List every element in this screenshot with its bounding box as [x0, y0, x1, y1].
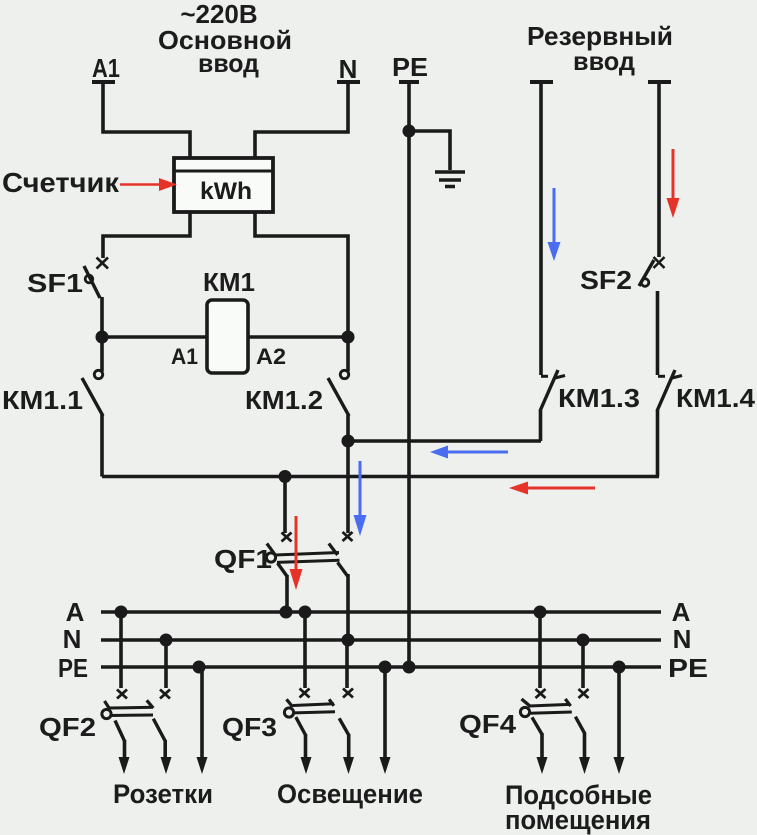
contact KM1.3: [540, 370, 565, 411]
wire QF4 tap A: [538, 612, 542, 688]
wire meter right output: [255, 212, 348, 372]
svg-text:А2: А2: [256, 344, 286, 369]
wire A1 to meter: [103, 82, 190, 158]
breaker QF3: [284, 689, 353, 736]
wire junction to KM1.1: [100, 337, 104, 372]
wire PE tap lighting: [383, 667, 387, 759]
svg-text:РЕ: РЕ: [58, 653, 88, 683]
node PE-utility: [613, 661, 626, 674]
wire SF2 output: [656, 291, 660, 375]
node PE-ground: [403, 125, 416, 138]
contact KM1.2: [328, 370, 349, 416]
arrow lighting PE: [380, 757, 391, 774]
red arrow reserve R down: [672, 149, 675, 201]
terminal reserve L: [530, 80, 553, 84]
breaker SF1: [84, 258, 108, 299]
breaker QF4: [520, 689, 588, 734]
wire QF4 out N: [583, 733, 587, 759]
wire SF1 to junction: [100, 297, 104, 337]
node SF1-coil: [96, 331, 109, 344]
wire N to meter: [255, 82, 348, 158]
svg-text:РЕ: РЕ: [392, 52, 428, 82]
svg-text:Счетчик: Счетчик: [2, 167, 120, 198]
node KM1.2-KM1.3: [342, 435, 355, 448]
node N-QF2: [160, 634, 173, 647]
node A-QF4: [534, 606, 547, 619]
wire lower bus: [102, 475, 659, 479]
wire QF3 tap N: [345, 640, 349, 688]
contact KM1.1: [82, 370, 103, 416]
arrow utility PE: [614, 757, 625, 774]
wire coil A2 to right riser: [248, 335, 348, 339]
svg-text:ввод: ввод: [198, 48, 259, 78]
svg-text:КМ1.4: КМ1.4: [676, 383, 756, 413]
svg-text:Розетки: Розетки: [113, 779, 213, 809]
svg-text:Освещение: Освещение: [277, 779, 423, 809]
terminal A1: [92, 80, 115, 84]
node coil A2: [342, 331, 355, 344]
load arrowheads: [119, 757, 625, 774]
wire QF1 right pole: [346, 441, 350, 533]
wire coil feed A1: [102, 335, 207, 339]
wire QF2 out A: [123, 740, 127, 759]
svg-text:РЕ: РЕ: [668, 653, 708, 683]
svg-text:QF1: QF1: [214, 544, 272, 574]
svg-text:QF3: QF3: [222, 712, 277, 742]
svg-text:N: N: [63, 624, 82, 654]
breaker QF1: [266, 532, 352, 577]
svg-text:А: А: [66, 597, 85, 627]
meter kWh box: [174, 158, 273, 212]
wire QF4 out A: [540, 733, 544, 759]
svg-text:ввод: ввод: [573, 46, 635, 76]
wire QF3 out N: [347, 734, 351, 759]
wire QF2 out N: [163, 740, 167, 759]
red arrow meter pointer: [120, 183, 162, 185]
bus N: [101, 638, 661, 642]
breaker QF2: [102, 690, 170, 742]
wire QF2 tap N: [164, 640, 168, 688]
node PE-sockets: [193, 661, 206, 674]
flow arrows: [120, 149, 680, 590]
red arrow left on bus: [526, 487, 595, 490]
wire QF3 out A: [304, 734, 308, 759]
svg-text:КМ1.2: КМ1.2: [245, 385, 323, 415]
svg-text:А1: А1: [92, 53, 120, 83]
svg-text:kWh: kWh: [200, 178, 252, 205]
wire reserve R down: [657, 82, 661, 257]
wire KM1.2 output: [346, 415, 350, 441]
svg-text:КМ1.1: КМ1.1: [2, 385, 83, 415]
bus PE: [101, 665, 661, 669]
arrow lighting A: [301, 757, 312, 774]
wire ground tap: [409, 131, 450, 170]
terminal PE: [399, 80, 419, 84]
node A-QF2: [115, 606, 128, 619]
wire QF2 tap A: [119, 612, 123, 688]
arrow sockets N: [161, 757, 172, 774]
node PE-lighting: [379, 661, 392, 674]
wire QF1 left output to bus A: [285, 575, 289, 612]
svg-text:SF2: SF2: [580, 265, 632, 295]
wire PE tap sockets: [200, 667, 204, 759]
svg-text:QF4: QF4: [459, 709, 517, 739]
blue arrow QF1 down: [359, 461, 362, 518]
ground: [435, 172, 465, 187]
blue arrow left on tie: [446, 451, 508, 454]
svg-text:QF2: QF2: [39, 712, 96, 742]
svg-text:А: А: [672, 597, 691, 627]
wire QF1 right output to bus N: [346, 574, 350, 640]
arrow utility A: [537, 757, 548, 774]
node N-QF1out: [342, 634, 355, 647]
terminal reserve R: [648, 80, 671, 84]
wire QF3 tap A: [303, 612, 307, 688]
blue arrow reserve L down: [553, 188, 556, 245]
svg-text:А1: А1: [171, 344, 198, 369]
node A-QF1out: [280, 606, 293, 619]
arrow lighting N: [343, 757, 354, 774]
red arrow QF1 down: [295, 516, 298, 572]
wire PE tap utility: [617, 667, 621, 759]
svg-text:N: N: [673, 624, 692, 654]
wire QF4 tap N: [581, 640, 585, 688]
wire tie KM1.2 to KM1.3: [348, 439, 541, 443]
contact KM1.4: [657, 370, 682, 411]
wire PE vertical: [407, 82, 411, 664]
wire KM1.4 output: [656, 410, 660, 477]
svg-text:КМ1.3: КМ1.3: [558, 383, 640, 413]
breaker SF2: [639, 257, 665, 286]
contactor coil KM1: [207, 300, 248, 373]
arrow sockets PE: [197, 757, 208, 774]
svg-text:SF1: SF1: [27, 268, 83, 298]
wire KM1.3 output: [539, 410, 543, 441]
wire meter left output to SF1: [103, 212, 190, 258]
svg-text:КМ1: КМ1: [203, 267, 255, 297]
svg-text:N: N: [339, 54, 358, 84]
bus A: [101, 610, 661, 614]
wire QF1 left pole: [283, 476, 287, 533]
arrow sockets A: [119, 757, 130, 774]
node A-QF3: [299, 606, 312, 619]
svg-text:помещения: помещения: [505, 805, 651, 835]
wire reserve L down: [539, 82, 543, 375]
terminal N: [337, 80, 360, 84]
node PE-main: [403, 661, 416, 674]
wire KM1.1 output: [100, 415, 104, 477]
node bus-QF1: [279, 470, 292, 483]
arrow utility N: [579, 757, 590, 774]
node N-QF4: [577, 634, 590, 647]
